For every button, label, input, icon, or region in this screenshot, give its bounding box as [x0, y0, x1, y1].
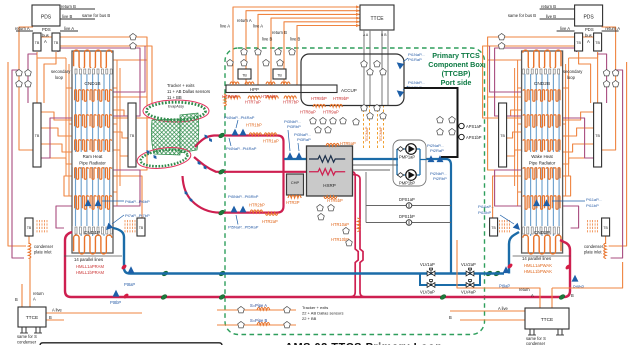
svg-text:B: B: [449, 315, 452, 320]
svg-text:A live: A live: [498, 306, 509, 311]
wire bottom TB drop: [605, 236, 607, 244]
wire TTCE-L riser B: [21, 284, 23, 307]
arrow TTCE feed 2: [356, 9, 360, 12]
node red diamond: [565, 264, 572, 271]
terminal block TB (bottom right): [137, 218, 145, 236]
sensor Pt9aP: [503, 266, 510, 273]
sensor line DPS1bP: [366, 222, 451, 224]
controller TTCE (bottom left): [18, 307, 46, 327]
terminal block TB (tall left): [594, 103, 602, 167]
resistor heater coil (feed): [230, 82, 239, 84]
resistor heater coil: [330, 104, 342, 107]
pipe red main (bottom): [65, 232, 570, 297]
wire TTCE-R right riser: [552, 262, 623, 288]
terminal block TB (bottom left): [25, 218, 33, 236]
svg-text:VLV3aP: VLV3aP: [420, 290, 435, 295]
wire PDS return B stub: [60, 8, 95, 10]
svg-text:HMLL1bPRAM: HMLL1bPRAM: [76, 270, 104, 275]
node (green): [218, 270, 225, 277]
svg-text:live B: live B: [62, 14, 72, 19]
svg-text:live A: live A: [560, 26, 570, 31]
sensor diamond: [188, 197, 194, 203]
svg-text:HTR1bP: HTR1bP: [246, 123, 262, 128]
svg-text:TTCE: TTCE: [26, 315, 39, 321]
wire TTCE feed 1: [233, 7, 360, 85]
terminal block TB (HPP left): [238, 69, 251, 79]
svg-text:Tracker + exits: Tracker + exits: [167, 83, 194, 88]
sensor diamond: [202, 164, 208, 170]
svg-text:return B: return B: [272, 30, 287, 35]
svg-text:VLV2aP: VLV2aP: [461, 262, 476, 267]
sensor Pt10 triangle: [513, 223, 523, 233]
wire TTCE feed 6: [297, 26, 360, 86]
wire TB1 feed: [597, 52, 599, 103]
svg-text:HTR7aP: HTR7aP: [245, 100, 261, 105]
sensor diamond: [152, 154, 158, 160]
svg-text:TTCE: TTCE: [541, 317, 554, 323]
TTCBP boundary (dashed): [225, 48, 485, 335]
temp sensor pentagon: [374, 60, 381, 66]
sensor Pt1NbP...Pt1RbP: [395, 88, 405, 98]
wire far-left orange riser: [8, 62, 26, 246]
svg-text:Pt1RaP: Pt1RaP: [408, 57, 422, 62]
temp sensor pentagon: [367, 112, 374, 118]
temp sensor pentagon: [353, 118, 360, 124]
temp sensor pentagon: [16, 69, 23, 75]
svg-text:Pt3RaP: Pt3RaP: [297, 137, 311, 142]
resistor heater coil (feed): [281, 82, 290, 84]
link DPS drop: [365, 172, 367, 223]
wire radiator bottom-left taps: [64, 176, 72, 196]
wire TTCE feed 2: [246, 11, 360, 85]
temp sensor pentagon: [603, 69, 610, 75]
svg-text:CND2B: CND2B: [534, 81, 550, 87]
pressure sensor APS1bP: [458, 136, 460, 138]
wire radiator bottom-right taps: [493, 176, 522, 218]
temp sensor pentagon: [130, 33, 137, 39]
sensor diamond: [145, 149, 151, 155]
wire TB-radiator step 3: [41, 144, 72, 152]
temp sensor pentagon: [263, 59, 270, 65]
resistor HTR3P: [288, 195, 301, 198]
terminal block TB (tall right): [499, 103, 507, 167]
wire far-left maroon riser: [12, 70, 24, 258]
wire TB2 feed: [579, 52, 591, 103]
node (green): [161, 270, 168, 277]
condenser plate hatch left: [36, 220, 38, 222]
resistor heater coil: [284, 96, 296, 99]
wire radiator bottom-left taps: [563, 176, 571, 196]
resistor HTR5bP: [324, 196, 337, 199]
temp sensor pentagon: [255, 48, 262, 54]
wire maroon left low: [56, 206, 72, 228]
TECM dashed lines: [363, 105, 365, 150]
radiator column (left assembly): [522, 51, 563, 253]
svg-text:22 + AB Dallas sensors: 22 + AB Dallas sensors: [302, 311, 343, 316]
wire TB-radiator step 4: [41, 158, 72, 164]
temp sensor pentagon: [437, 116, 444, 122]
wire radiator to right TB step 2: [507, 132, 522, 138]
wire PDS live A stub: [60, 30, 78, 32]
wire maroon left low: [563, 206, 579, 228]
radiator condenser triangles: [543, 199, 550, 206]
temp sensor pentagon: [238, 306, 245, 312]
pump box: [393, 140, 426, 186]
svg-text:Pt7aP...Pt7bP: Pt7aP...Pt7bP: [125, 213, 150, 218]
pipe valve bypass: [420, 274, 480, 286]
svg-text:TB: TB: [603, 226, 608, 230]
condenser heater box CHP: [287, 174, 304, 195]
node (green): [485, 270, 492, 277]
temp sensor pentagon: [241, 48, 248, 54]
left radiator / PDS cluster: [8, 5, 152, 259]
sensor diamond: [183, 190, 189, 196]
svg-text:Component Box: Component Box: [428, 60, 484, 69]
svg-text:VLV4aP: VLV4aP: [461, 290, 476, 295]
temp sensor pentagon: [612, 80, 619, 86]
temp sensor pentagon: [361, 60, 368, 66]
check valve diamond: [398, 173, 404, 178]
accumulator box ACCUP: [301, 54, 404, 106]
svg-text:TB: TB: [54, 41, 59, 45]
temp sensor pentagon: [330, 117, 337, 123]
condenser plate hatch right: [509, 220, 511, 222]
wire S=Pipe B line: [217, 324, 296, 326]
svg-text:return B: return B: [61, 4, 76, 9]
svg-text:HTR8bP: HTR8bP: [311, 96, 327, 101]
svg-text:TB: TB: [27, 226, 32, 230]
svg-text:TB: TB: [576, 41, 581, 45]
svg-text:Pt5NbP...Pt5RbP: Pt5NbP...Pt5RbP: [228, 194, 259, 199]
temp sensor pentagon: [340, 117, 347, 123]
svg-text:HMLL1aPWAK: HMLL1aPWAK: [524, 263, 552, 268]
temp sensor pentagon: [275, 48, 282, 54]
wire maroon left step: [563, 118, 594, 158]
sensor Pt5 triangles: [231, 206, 238, 213]
temp sensor pentagon: [238, 321, 245, 327]
temp sensor pentagon: [25, 69, 32, 75]
svg-text:A: A: [33, 297, 36, 302]
svg-text:bus: bus: [42, 33, 49, 38]
wire column top feed: [569, 52, 598, 58]
temp sensor pentagon: [325, 126, 332, 132]
sensor diamond: [196, 160, 202, 166]
temp sensor pentagon: [367, 68, 374, 74]
svg-text:Pt3RbP: Pt3RbP: [287, 124, 301, 129]
svg-text:Pt4NaP...Pt4RaP: Pt4NaP...Pt4RaP: [224, 115, 255, 120]
svg-text:HTR7bP: HTR7bP: [283, 100, 299, 105]
resistor heater coil: [313, 104, 325, 107]
power box PDS: [32, 5, 60, 26]
node red diamond: [121, 264, 128, 271]
wire TB-radiator step 3: [563, 144, 594, 152]
svg-text:Pt8bP: Pt8bP: [110, 300, 121, 305]
node (green): [218, 209, 225, 216]
svg-text:bus: bus: [585, 33, 592, 38]
pipe pump outlet: [426, 159, 451, 274]
svg-text:Pt9bP: Pt9bP: [573, 285, 584, 290]
temp sensor pentagon: [612, 69, 619, 75]
svg-text:PMP1bP: PMP1bP: [399, 181, 415, 186]
svg-text:B: B: [571, 293, 574, 298]
temp sensor pentagon: [284, 321, 291, 327]
svg-text:live B: live B: [546, 14, 556, 19]
resistor heater coil: [248, 96, 260, 99]
svg-text:TECMaP: TECMaP: [365, 126, 369, 142]
temp sensor pentagon: [343, 227, 350, 233]
svg-text:CND2P: CND2P: [534, 230, 550, 236]
wire TB-radiator step 2: [563, 128, 594, 136]
svg-text:CND1B: CND1B: [84, 81, 100, 87]
HXRP cold zigzag: [309, 156, 345, 162]
svg-text:CND1P: CND1P: [84, 230, 100, 236]
pump internal piping: [393, 149, 426, 175]
legend box (partial): [40, 343, 222, 345]
pipe blue CND2P riser: [509, 232, 519, 274]
resistor HTR10 on red pair: [357, 218, 359, 232]
wire maroon left step: [41, 118, 72, 158]
wire column flank right outer: [119, 68, 121, 186]
svg-text:Pipe Radiator: Pipe Radiator: [79, 161, 106, 166]
wire TTCE grey drops: [363, 30, 365, 105]
svg-text:S=Pipe B: S=Pipe B: [250, 318, 267, 323]
wire maroon TB1 drop: [598, 54, 607, 103]
svg-text:Primary TTCS: Primary TTCS: [432, 51, 480, 60]
wire column top feed: [37, 52, 66, 58]
temp sensor pentagon: [361, 104, 368, 110]
temp sensor pentagon: [449, 128, 456, 134]
svg-text:TB: TB: [500, 134, 505, 138]
svg-text:TB: TB: [595, 134, 600, 138]
wire PDS return A stub: [16, 30, 33, 32]
temp sensor pentagon: [317, 204, 324, 210]
condenser plate hatch left: [597, 220, 599, 222]
svg-text:Pt11bP: Pt11bP: [586, 203, 599, 208]
svg-text:11 + BB: 11 + BB: [167, 95, 182, 100]
bracket 14 parallel lines (left): [64, 255, 122, 257]
svg-text:return A: return A: [237, 18, 252, 23]
wire TB-radiator step 2: [41, 128, 72, 136]
terminal block TB (tall right): [128, 103, 136, 167]
temp sensor pentagon: [277, 59, 284, 65]
svg-text:DPS1aP: DPS1aP: [399, 197, 415, 202]
svg-text:Pt6aP...Pt6bP: Pt6aP...Pt6bP: [125, 199, 150, 204]
resistor heater coil vertical: [224, 94, 226, 106]
pipe evaporator supply (red): [183, 136, 284, 213]
svg-text:22 + BB: 22 + BB: [302, 316, 317, 321]
temp sensor pentagon: [310, 117, 317, 123]
svg-text:PDS: PDS: [42, 27, 51, 32]
wire far-left orange riser: [609, 62, 627, 246]
component box frame: [404, 88, 458, 157]
temp sensor pentagon: [241, 59, 248, 65]
temp sensor pentagon: [315, 126, 322, 132]
svg-text:same for bus B: same for bus B: [82, 13, 110, 18]
svg-text:Pt11aP...: Pt11aP...: [586, 197, 602, 202]
svg-text:Tracker + exits: Tracker + exits: [302, 305, 328, 310]
wire PDS live A stub: [557, 30, 575, 32]
arrow TTCE feed 3: [356, 13, 360, 16]
wire radiator right tap 97: [113, 96, 147, 98]
node red diamond: [507, 263, 514, 270]
terminal block TB (right under PDS): [52, 33, 60, 51]
resistor HTR2aP: [265, 213, 278, 216]
wire maroon top route: [58, 48, 140, 116]
svg-text:HTR5bP: HTR5bP: [327, 198, 343, 203]
svg-text:EvapAssy: EvapAssy: [168, 105, 184, 109]
svg-text:TB: TB: [277, 74, 282, 78]
svg-text:HTR2bP: HTR2bP: [249, 203, 265, 208]
node (green): [439, 294, 446, 301]
svg-text:HTR2aP: HTR2aP: [262, 219, 278, 224]
pipe HXRP outlet pair (red): [350, 172, 358, 297]
wire TTCE feed 5: [284, 22, 360, 85]
wire maroon radiator right low: [113, 170, 140, 206]
wire TTCE-R feed: [457, 240, 540, 308]
wire column flank right inner: [517, 60, 519, 206]
svg-text:B: B: [15, 297, 18, 302]
svg-text:loop: loop: [567, 75, 576, 80]
svg-text:Wake Heat: Wake Heat: [531, 154, 553, 159]
wire TB-radiator step 4: [563, 158, 594, 164]
svg-text:loop: loop: [55, 75, 64, 80]
sensor Pt1NaP...Pt1RaP: [395, 60, 405, 70]
svg-text:HTR4aP: HTR4aP: [222, 94, 238, 99]
svg-text:HTR4bP: HTR4bP: [261, 94, 277, 99]
heat pipe panel HPP bar: [226, 85, 337, 93]
right radiator / PDS cluster (mirrored geometry): [483, 5, 627, 259]
sensor DPS1bP: [406, 220, 412, 226]
svg-text:PDS: PDS: [585, 27, 594, 32]
svg-text:HTR3P: HTR3P: [286, 200, 300, 205]
heat exchanger HXRP: [307, 146, 353, 196]
svg-text:Pt4NaP...Pt4RaP: Pt4NaP...Pt4RaP: [226, 146, 257, 151]
wire maroon TB1 drop: [28, 54, 37, 103]
temp sensor pentagon: [227, 59, 234, 65]
svg-text:TB: TB: [139, 226, 144, 230]
wire radiator to right TB step 3: [113, 150, 128, 156]
svg-text:TECMbP: TECMbP: [379, 126, 383, 142]
valve VLV2aP: [466, 268, 474, 276]
svg-text:HTR9bP: HTR9bP: [333, 96, 349, 101]
wire PDS return B stub: [540, 8, 575, 10]
svg-text:live B: live B: [262, 37, 272, 42]
arrow TTCE feed 6: [356, 24, 360, 27]
pipe HXRP cold stub: [284, 158, 307, 160]
temp sensor pentagon: [380, 68, 387, 74]
wire bus A to radiator right top: [488, 37, 594, 170]
pipe blue main (bottom): [113, 228, 504, 274]
wire column flank left inner: [65, 58, 67, 176]
pump PMP1aP: [406, 144, 417, 155]
svg-text:B: B: [49, 315, 52, 320]
svg-text:ACCUP: ACCUP: [341, 88, 357, 93]
svg-text:A: A: [587, 39, 590, 44]
wire TB2 feed: [44, 52, 56, 103]
condenser inlet coil: [29, 243, 31, 259]
temp sensor pentagon: [346, 239, 353, 245]
resistor HTR5aP: [326, 143, 339, 146]
check valve diamond: [398, 147, 404, 152]
resistor heater coil: [266, 96, 278, 99]
svg-text:HPP: HPP: [250, 87, 259, 92]
sensor diamond: [208, 137, 214, 143]
temp sensor pentagon: [284, 306, 291, 312]
radiator condenser triangles: [85, 199, 92, 206]
svg-text:return A: return A: [15, 26, 30, 31]
condenser inlet coil: [604, 243, 606, 259]
svg-text:TTCE: TTCE: [370, 16, 384, 22]
svg-text:Pt5NaP...Pt5RaP: Pt5NaP...Pt5RaP: [228, 225, 259, 230]
wire bus A to radiator right mid: [483, 46, 575, 118]
svg-text:HMLL1aPRAM: HMLL1aPRAM: [76, 264, 104, 269]
pipe HXRP to pump: [353, 158, 399, 160]
node red diamond: [123, 293, 130, 300]
wire bottom TB drop: [28, 236, 30, 244]
terminal block TB (left under PDS): [33, 33, 41, 51]
svg-text:A: A: [44, 39, 47, 44]
svg-text:PDS: PDS: [583, 15, 594, 21]
svg-text:Ram Heat: Ram Heat: [83, 154, 104, 159]
svg-text:Pt2RaP: Pt2RaP: [430, 148, 444, 153]
svg-text:TB: TB: [130, 134, 135, 138]
svg-text:plate inlet: plate inlet: [584, 250, 602, 255]
temp sensor pentagon: [498, 42, 505, 48]
svg-text:APS1aP: APS1aP: [466, 124, 482, 129]
controller TTCE (bottom right): [525, 308, 569, 329]
bracket 14 parallel lines (right): [513, 255, 571, 257]
svg-text:AMS 02 TTCS Primary Loop: AMS 02 TTCS Primary Loop: [285, 342, 442, 345]
wire radiator to right TB step 1: [507, 110, 522, 116]
wire column flank left outer: [565, 64, 567, 196]
temp sensor pentagon: [16, 80, 23, 86]
svg-text:Pipe Radiator: Pipe Radiator: [529, 161, 556, 166]
svg-text:HMLL1bPWAK: HMLL1bPWAK: [524, 269, 552, 274]
evaporator top ring: [143, 100, 209, 122]
svg-text:Pt10aP...: Pt10aP...: [478, 204, 494, 209]
sensor diamond: [203, 133, 209, 139]
svg-text:CHP: CHP: [291, 180, 300, 185]
sensor Pt4 triangles: [232, 129, 239, 136]
node (green): [493, 270, 500, 277]
wire radiator right upper tap: [113, 59, 147, 61]
wire PDS return A stub: [602, 30, 619, 32]
svg-text:Pt10bP: Pt10bP: [478, 210, 491, 215]
sensor DPS1aP: [406, 203, 412, 209]
arrow TTCE feed 4: [356, 17, 360, 20]
wire PDS return A drop: [19, 27, 33, 150]
svg-text:secondary: secondary: [51, 69, 71, 74]
svg-text:TB: TB: [35, 134, 40, 138]
radiator column (left assembly): [72, 51, 113, 253]
wire maroon right ladder: [113, 46, 145, 92]
svg-text:return: return: [33, 291, 44, 296]
terminal block TB (tall left): [33, 103, 41, 167]
resistor heater coil (feed): [266, 82, 275, 84]
wire TTCE-R riser B: [551, 288, 553, 308]
svg-text:(TTCBP): (TTCBP): [442, 69, 471, 78]
temp sensor pentagon: [498, 33, 505, 39]
svg-text:HTR5aP: HTR5aP: [340, 141, 356, 146]
wire column flank right inner: [116, 60, 118, 206]
wire radiator to right TB step 1: [113, 110, 128, 116]
svg-text:VLV1aP: VLV1aP: [420, 262, 435, 267]
temp sensor pentagon: [130, 42, 137, 48]
wire bus A to radiator right mid: [60, 46, 152, 118]
valve VLV3aP: [427, 280, 435, 288]
resistor HTR1aP: [264, 133, 277, 136]
temp sensor pentagon: [449, 116, 456, 122]
